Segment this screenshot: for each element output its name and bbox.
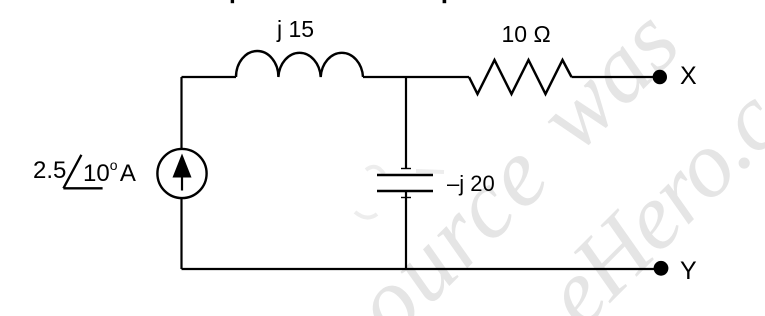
faint erased-watermark fringe near capacitor: [355, 167, 444, 218]
wire: top-left horizontal: [182, 76, 237, 78]
label X: [680, 62, 697, 91]
watermark fragment "was": [515, 0, 700, 171]
resistor R1 10ohm: [469, 60, 572, 94]
wire: left vertical upper: [180, 77, 182, 149]
capacitor C1 bottom lead: [405, 191, 407, 269]
terminal dot X: [653, 70, 667, 84]
watermark fragment "ource": [330, 119, 571, 316]
current source arrow: [181, 170, 183, 191]
watermark fragment "eHero.c": [522, 69, 765, 316]
terminal dot Y: [654, 261, 669, 276]
capacitor C1 bottom plate: [377, 190, 433, 192]
wire: left vertical lower: [180, 198, 182, 269]
label 10 ohm: [502, 21, 551, 48]
label j 15: [277, 16, 314, 43]
cropped text descender 1: [231, 0, 234, 3]
label 2.5 angle 10 A: [33, 157, 66, 185]
current source I1 circle: [157, 149, 206, 198]
wire: inductor to node: [363, 76, 469, 78]
cropped text descender 2: [443, 0, 447, 3]
label -j 20: [447, 171, 495, 197]
capacitor C1 top plate: [377, 174, 433, 176]
label Y: [680, 257, 697, 286]
inductor L1 j15: [236, 51, 363, 77]
wire: resistor to X terminal: [572, 76, 655, 78]
capacitor C1 top lead: [405, 77, 407, 169]
wire: bottom horizontal: [182, 268, 655, 270]
angle symbol of source label: [63, 155, 102, 189]
